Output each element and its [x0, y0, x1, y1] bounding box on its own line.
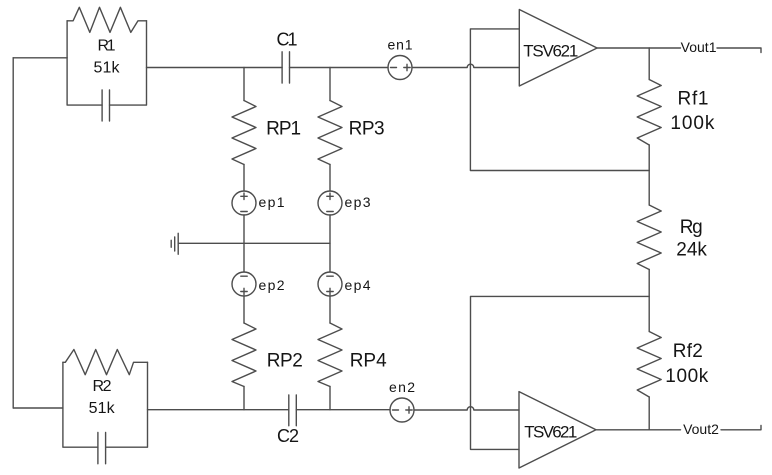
resistor RP1 [232, 68, 256, 192]
resistor R1 (parallel RC box, top-left) [67, 7, 146, 105]
resistor Rf1 [637, 48, 661, 205]
svg-text:R2: R2 [93, 378, 112, 395]
capacitor C2 [289, 395, 297, 426]
svg-text:Rg: Rg [680, 217, 703, 238]
resistor RP4 [318, 296, 342, 410]
wire ep1 to ep2 [243, 215, 245, 272]
svg-text:TSV621: TSV621 [524, 422, 577, 441]
resistor RP3 [318, 68, 342, 192]
svg-text:Vout2: Vout2 [683, 421, 719, 437]
source en2 [390, 398, 414, 422]
svg-text:51k: 51k [89, 400, 116, 417]
wire feedback U1 upper input [470, 29, 649, 171]
resistor RP2 [232, 296, 256, 410]
svg-text:RP3: RP3 [349, 119, 385, 140]
source ep4 [318, 272, 342, 296]
wire C2 to en2 [296, 409, 390, 411]
svg-text:Rf1: Rf1 [678, 89, 709, 110]
svg-text:100k: 100k [670, 113, 715, 134]
svg-text:C1: C1 [277, 30, 298, 50]
capacitor inside R1 box [102, 90, 109, 121]
wire R1 left to left rail [13, 57, 67, 59]
wire ground to columns [178, 242, 330, 244]
wire bottom main (R2 to C2) [148, 409, 289, 411]
svg-text:ep2: ep2 [259, 277, 285, 293]
source en1 [388, 56, 412, 80]
svg-text:RP2: RP2 [267, 351, 303, 372]
wire ep3 to ep4 [329, 215, 331, 272]
svg-text:en2: en2 [389, 379, 415, 395]
svg-text:R1: R1 [98, 38, 116, 55]
resistor Rg [637, 205, 661, 332]
resistor R2 (parallel RC box, bottom-left) [63, 350, 148, 448]
wire feedback U2 lower input [471, 296, 650, 449]
svg-text:Rf2: Rf2 [673, 341, 703, 362]
svg-text:ep3: ep3 [345, 194, 371, 210]
wire Vout2 to terminal [721, 425, 761, 429]
svg-text:Vout1: Vout1 [681, 39, 717, 55]
wire en2 to op-amp with hop [414, 407, 519, 410]
source ep3 [318, 191, 342, 215]
wire C1 to en1 [290, 67, 389, 69]
source ep1 [232, 191, 256, 215]
svg-text:51k: 51k [94, 60, 121, 77]
svg-text:ep4: ep4 [345, 277, 371, 293]
wire en1 to op-amp with hop [412, 64, 519, 67]
svg-text:ep1: ep1 [259, 194, 285, 210]
wire U2 output [596, 429, 681, 431]
svg-text:en1: en1 [388, 37, 413, 53]
op-amp U1 [519, 10, 597, 87]
svg-text:RP4: RP4 [350, 351, 387, 372]
svg-text:TSV621: TSV621 [523, 41, 578, 60]
ground [171, 233, 178, 254]
svg-text:24k: 24k [676, 240, 707, 261]
wire left rail vertical [12, 58, 14, 408]
source ep2 [232, 272, 256, 296]
capacitor C1 [282, 52, 289, 83]
capacitor inside R2 box [98, 433, 106, 464]
wire top main (R1 to C1) [147, 67, 283, 69]
wire left rail to R2 [13, 407, 63, 409]
svg-text:C2: C2 [277, 426, 299, 446]
op-amp U2 [519, 392, 596, 468]
svg-text:100k: 100k [665, 366, 709, 387]
wire U1 output [597, 47, 680, 49]
wire Vout1 to terminal [717, 48, 761, 53]
resistor Rf2 [637, 332, 661, 430]
svg-text:RP1: RP1 [266, 119, 301, 140]
